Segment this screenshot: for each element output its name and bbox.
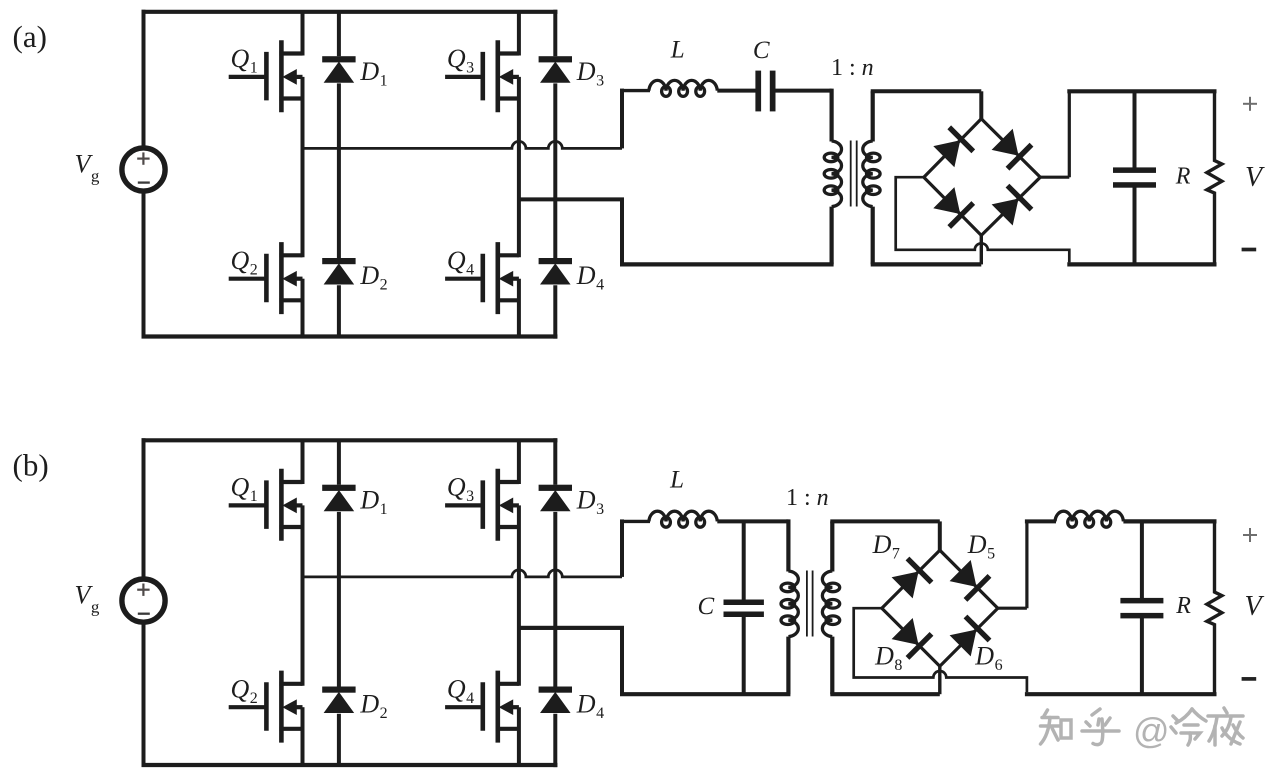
wire D3-D4 leg	[553, 438, 557, 485]
svg-text:1 : n: 1 : n	[786, 485, 829, 511]
wire L to C	[717, 89, 756, 93]
capacitor output (a)	[1133, 91, 1137, 168]
capacitor C (series)	[755, 71, 761, 112]
inductor L (b)	[649, 511, 717, 521]
diode bridge diode a-BR	[993, 184, 1033, 224]
wire tank riser (b)	[620, 519, 624, 577]
transformer T2 core	[806, 571, 808, 637]
wire D1-D2 leg	[337, 440, 341, 484]
diode bridge diode a-TR	[993, 130, 1033, 170]
transistor Q3	[445, 469, 519, 541]
capacitor C parallel (b)	[742, 521, 746, 600]
wire tank top riser	[620, 89, 624, 149]
svg-text:V: V	[1245, 591, 1265, 622]
wire Q3-Q4 leg	[517, 12, 521, 56]
capacitor output (b)	[1140, 521, 1144, 598]
wire secondary top to bridge (b)	[830, 519, 940, 523]
inductor output filter (b)	[1055, 511, 1123, 521]
diode bridge diode a-TL	[934, 126, 974, 166]
wire bridge minus loop (b)	[854, 608, 1027, 692]
voltage source Vg	[122, 579, 165, 622]
wire bottom rail	[142, 334, 558, 338]
svg-text:L: L	[669, 467, 684, 494]
svg-text:R: R	[1175, 593, 1191, 619]
svg-text:L: L	[670, 37, 685, 64]
svg-text:C: C	[698, 593, 715, 620]
wire output top rail	[1067, 89, 1216, 93]
diode diode D8	[893, 619, 933, 659]
wire secondary bottom to bridge (b)	[830, 692, 940, 696]
diode D4	[539, 687, 572, 713]
transistor Q3	[445, 40, 519, 112]
wire left (Vg branch)	[142, 438, 146, 579]
wire tank bottom (b)	[519, 626, 624, 630]
wire output bottom rail	[1067, 262, 1216, 266]
wire top rail	[142, 438, 558, 442]
transistor Q4	[445, 242, 519, 314]
svg-text:@: @	[1133, 710, 1170, 751]
wire bottom rail	[142, 763, 558, 767]
wire tank bottom	[620, 199, 624, 264]
inductor L	[649, 80, 717, 90]
diode D1	[322, 56, 355, 82]
wire Q3-Q4 leg	[517, 440, 521, 484]
label minus (b)	[1242, 677, 1257, 681]
wire Q1-Q2 leg	[301, 440, 305, 484]
svg-text:1 : n: 1 : n	[831, 55, 874, 81]
wire bridge midpoint (right leg)	[519, 197, 624, 201]
transistor Q2	[229, 242, 303, 314]
wire output rail left (b)	[1025, 519, 1056, 523]
wire C to transformer	[776, 89, 832, 93]
transformer T2 secondary	[830, 521, 834, 571]
wire bridge bottom vertex lead	[980, 235, 983, 264]
wire bridge plus to output (b)	[998, 607, 1027, 610]
diode diode D7	[893, 557, 933, 597]
diode D1	[322, 485, 355, 511]
label minus (a)	[1242, 248, 1257, 252]
wire top rail	[142, 10, 558, 14]
transformer T1 secondary	[871, 91, 875, 141]
transistor Q1	[229, 469, 303, 541]
wire bridge bottom vertex lead (b)	[938, 666, 941, 694]
wire bridge midpoint (right leg)	[519, 626, 624, 630]
diode diode D5	[951, 561, 991, 601]
wire output rail right (b)	[1123, 519, 1216, 523]
watermark zhihu @lengye	[1041, 709, 1120, 745]
svg-text:(a): (a)	[13, 19, 47, 54]
wire D3-D4 leg	[553, 10, 557, 57]
diode bridge diode a-BL	[934, 188, 974, 228]
transformer T1 core	[850, 141, 852, 207]
wire D1-D2 leg	[337, 12, 341, 56]
wire output bottom rail (b)	[1025, 692, 1217, 696]
svg-text:V: V	[1245, 162, 1265, 193]
voltage source Vg	[122, 148, 165, 191]
diode D4	[539, 258, 572, 284]
transformer T1 primary	[829, 89, 833, 142]
transistor Q1	[229, 40, 303, 112]
diode D2	[322, 687, 355, 713]
resistor R (b)	[1207, 521, 1222, 694]
svg-text:(b): (b)	[13, 448, 49, 483]
diode diode D6	[951, 615, 991, 655]
resistor R (a)	[1207, 91, 1222, 264]
wire bridge minus loop	[896, 177, 1070, 262]
label + (a)	[1243, 103, 1257, 105]
node rectifier diamond (a)	[924, 119, 1041, 236]
node rectifier diamond (b)	[882, 550, 998, 666]
wire L to transformer (b)	[717, 519, 788, 523]
transistor Q2	[229, 671, 303, 743]
wire bridge plus to output	[1040, 176, 1069, 179]
wire Q1-Q2 leg	[301, 12, 305, 56]
wire secondary top to bridge	[871, 89, 982, 93]
transistor Q4	[445, 671, 519, 743]
label + (b)	[1243, 534, 1257, 536]
diode D2	[322, 258, 355, 284]
wire bridge midpoint (left leg) with crossovers	[303, 570, 623, 577]
wire left (Vg branch)	[142, 10, 146, 148]
wire bridge midpoint (left leg) with crossovers	[303, 141, 623, 148]
svg-text:C: C	[753, 37, 770, 64]
wire secondary bottom to bridge	[871, 262, 982, 266]
transformer T2 primary	[786, 519, 790, 571]
diode D3	[539, 485, 572, 511]
diode D3	[539, 56, 572, 82]
svg-text:R: R	[1175, 163, 1191, 189]
